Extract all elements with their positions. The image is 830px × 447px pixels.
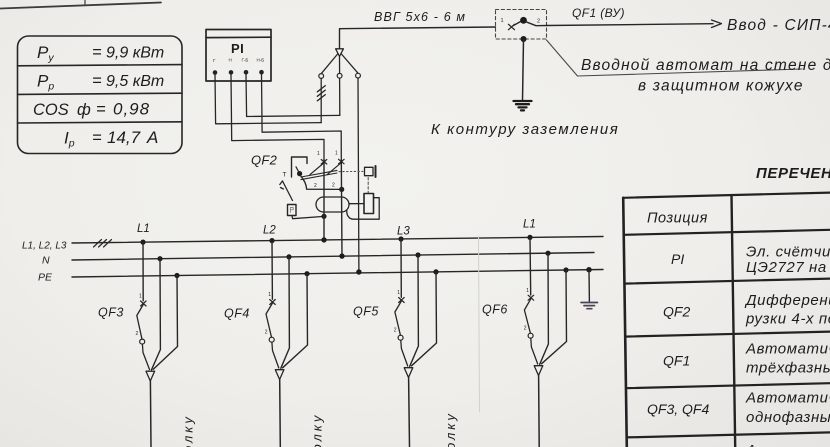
svg-text:=: = [92, 44, 102, 62]
svg-text:COS: COS [33, 101, 69, 119]
meter wire 3 (Г-Б to neutral riser) [246, 75, 340, 117]
svg-text:L1: L1 [137, 223, 150, 235]
earth symbol at PE bus [581, 303, 598, 309]
sheet border fragment (top-left) [0, 0, 161, 9]
dashed link latch to coil [367, 178, 369, 194]
junction on pole 1 conductor [321, 214, 326, 219]
QF5 cable head triangle [404, 368, 413, 378]
svg-text:L1, L2, L3: L1, L2, L3 [22, 241, 67, 252]
svg-text:QF6: QF6 [482, 303, 508, 317]
svg-text:К контуру заземления: К контуру заземления [431, 121, 619, 138]
termination fan wires [321, 54, 358, 74]
svg-text:1: 1 [501, 18, 504, 24]
QF3 outlet contact circle [140, 339, 145, 344]
QF5 outgoing cable [408, 378, 411, 447]
row QF1 description [745, 341, 830, 377]
QF3 outgoing cable [149, 381, 152, 447]
RCD pole 2 blade [327, 162, 342, 175]
svg-text:T: T [283, 172, 287, 179]
svg-text:олку: олку [181, 414, 196, 447]
leader line to annotation [547, 40, 803, 76]
svg-text:Н-Б: Н-Б [257, 57, 265, 62]
svg-text:в защитном кожухе: в защитном кожухе [638, 78, 804, 95]
wire: QF1 output to arrow [547, 24, 713, 26]
svg-text:QF1 (ВУ): QF1 (ВУ) [572, 6, 625, 20]
wire resistor to pole 1 [292, 216, 324, 219]
QF1 earth tap junction [521, 36, 527, 42]
svg-text:1: 1 [317, 151, 320, 157]
dotted link to release [339, 170, 363, 172]
wire: incoming main from riser to QF1 [340, 27, 496, 49]
phase conductor with 3-core marks [317, 78, 325, 122]
bus L1 L2 L3 [72, 237, 603, 244]
wire: QF1 to earth [523, 39, 524, 101]
coil return bracket [347, 198, 379, 220]
junction QF2 pole2 to N bus [339, 253, 344, 258]
PE conductor down to PE bus [357, 78, 360, 272]
svg-text:Г: Г [213, 58, 216, 63]
wire toroid to coil [349, 203, 364, 205]
table grid [623, 193, 830, 447]
svg-text:Эл. счётчик: Эл. счётчик [746, 244, 830, 261]
QF6 cable head triangle [534, 366, 543, 376]
QF3 PE drop [153, 273, 179, 369]
svg-text:Автоматичес: Автоматичес [745, 390, 830, 407]
junction QF2 pole1 to L bus [321, 237, 326, 242]
QF3 cable head triangle [146, 371, 155, 381]
svg-text:QF3: QF3 [98, 306, 124, 320]
QF6 outgoing cable [538, 376, 541, 447]
QF4 phase to cable [272, 342, 279, 368]
svg-text:0,98: 0,98 [113, 100, 150, 119]
breaker QF1 dashed enclosure [496, 10, 547, 40]
meter terminal dots [213, 70, 264, 75]
load data box [18, 36, 183, 154]
RCD pole 2 contact cross [339, 159, 345, 164]
breaker QF6 blade [524, 299, 531, 334]
RCD linkage bar (double) [301, 170, 337, 179]
RCD pole 1 contact cross [321, 160, 327, 165]
svg-text:L3: L3 [397, 226, 410, 238]
QF3 neutral drop [152, 256, 163, 370]
cable termination triangle [336, 49, 344, 57]
QF3 phase to cable [142, 344, 149, 369]
svg-text:14,7: 14,7 [107, 128, 141, 147]
svg-text:рузки 4-х по: рузки 4-х по [745, 311, 830, 328]
breaker QF3 blade [137, 305, 144, 340]
svg-text:PI: PI [671, 251, 684, 267]
breaker QF5 contact cross [399, 298, 405, 303]
RCD QF2 test contact pivot [296, 167, 302, 176]
row QF3, QF4 description [745, 390, 830, 427]
svg-text:=: = [96, 101, 106, 119]
svg-text:Pр: Pр [37, 72, 54, 93]
junction PE riser to PE bus [356, 269, 361, 274]
row QF2 description [744, 292, 830, 328]
breaker QF6 contact cross [528, 295, 534, 300]
svg-text:=: = [92, 129, 102, 147]
svg-text:1: 1 [397, 290, 400, 296]
RCD pole pin labels [314, 151, 338, 189]
3-phase slashes [94, 240, 112, 248]
svg-text:А: А [146, 128, 158, 147]
QF5 outlet contact circle [398, 335, 403, 340]
svg-text:QF2: QF2 [663, 304, 690, 320]
svg-text:QF1: QF1 [663, 353, 690, 369]
svg-text:9,5 кВт: 9,5 кВт [106, 73, 164, 90]
QF6 PE drop [542, 267, 569, 363]
RCD pole 1 conductor [323, 160, 325, 240]
svg-text:Автоматичес: Автоматичес [745, 442, 830, 447]
svg-text:ЦЭ2727 на дин: ЦЭ2727 на дин [746, 259, 830, 276]
QF5 phase to cable [401, 340, 408, 366]
QF5 neutral drop [410, 252, 421, 366]
row PI description [746, 244, 830, 277]
RCD pole 2 conductor [340, 160, 343, 257]
QF1 pin numbers [501, 18, 541, 25]
svg-text:2: 2 [537, 19, 540, 25]
svg-text:2: 2 [136, 331, 139, 337]
svg-text:ВВГ 5х6 - 6 м: ВВГ 5х6 - 6 м [374, 10, 466, 24]
svg-text:трёхфазный: трёхфазный [746, 360, 830, 377]
svg-text:L1: L1 [523, 219, 536, 231]
svg-text:однофазный: однофазный [746, 409, 830, 426]
QF5 phase drop [398, 236, 403, 297]
earth tap from PE bus [586, 267, 591, 302]
bus N [72, 253, 594, 261]
svg-text:=: = [92, 72, 102, 90]
RCD QF2 test button blade [280, 181, 293, 201]
load data text Pр = 9,5 кВт [37, 72, 164, 93]
svg-text:QF2: QF2 [251, 153, 278, 168]
QF5 PE drop [412, 269, 439, 366]
svg-text:N: N [42, 255, 50, 267]
svg-text:2: 2 [524, 326, 527, 332]
QF4 outgoing cable [279, 380, 282, 447]
QF4 phase drop [269, 238, 274, 299]
meter wire 1 (Г to phase) [215, 75, 321, 124]
load data text COS ф = 0,98 [33, 100, 150, 120]
svg-text:олку: олку [310, 413, 325, 447]
meter terminal labels [213, 57, 264, 63]
svg-text:Г-Б: Г-Б [242, 58, 249, 63]
svg-text:1: 1 [335, 151, 338, 157]
QF4 neutral drop [281, 254, 292, 368]
svg-text:Н: Н [229, 58, 232, 63]
svg-text:Вводной автомат на стене до: Вводной автомат на стене до [581, 57, 830, 74]
earth electrode symbol [514, 101, 532, 110]
release coil [364, 194, 374, 214]
svg-text:2: 2 [394, 328, 397, 334]
meter wire 4 (Н-Б to QF2 pole 2) [262, 75, 342, 160]
svg-text:2: 2 [314, 183, 317, 189]
svg-text:ПЕРЕЧЕНЬ ЭЛ: ПЕРЕЧЕНЬ ЭЛ [756, 165, 830, 182]
breaker QF3 contact cross [141, 301, 147, 306]
svg-text:PI: PI [231, 41, 244, 56]
junction on pole 2 conductor [339, 187, 344, 192]
svg-text:1: 1 [139, 294, 142, 300]
svg-text:L2: L2 [263, 225, 276, 237]
svg-text:2: 2 [265, 330, 268, 336]
RCD pole 1 blade [310, 162, 325, 175]
svg-text:QF4: QF4 [224, 307, 250, 321]
svg-text:Автоматичес: Автоматичес [745, 341, 830, 358]
release latch box [365, 166, 376, 177]
crease line [479, 236, 480, 412]
breaker QF1 contact cross [509, 24, 515, 29]
QF4 cable head triangle [275, 370, 284, 380]
load data text Iр = 14,7 А [64, 128, 158, 150]
QF6 phase drop [527, 235, 532, 295]
breaker QF4 blade [266, 303, 273, 337]
QF3 phase drop [140, 240, 145, 301]
svg-text:2: 2 [332, 183, 335, 189]
meter PI box [206, 30, 271, 82]
svg-text:1: 1 [268, 292, 271, 298]
svg-text:олку: олку [443, 411, 458, 447]
QF6 outlet contact circle [528, 333, 533, 338]
QF4 outlet contact circle [269, 337, 274, 342]
RCD QF2 test wire to pole 2 [301, 176, 342, 190]
svg-text:Позиция: Позиция [647, 211, 708, 227]
load data text Pу = 9,9 кВт [37, 43, 164, 64]
differential transformer toroid [316, 197, 349, 212]
QF6 neutral drop [540, 251, 551, 365]
arrow head to Ввод [712, 20, 722, 28]
svg-text:ф: ф [77, 101, 91, 119]
QF4 PE drop [283, 271, 310, 368]
svg-text:Pу: Pу [37, 43, 54, 64]
svg-text:1: 1 [526, 288, 529, 294]
meter wire 2 (Н to QF2 pole 1) [231, 75, 324, 160]
svg-text:Iр: Iр [64, 129, 75, 150]
svg-text:Дифференци: Дифференци [744, 292, 830, 309]
QF6 phase to cable [531, 338, 538, 364]
breaker QF5 blade [395, 301, 402, 335]
svg-text:9,9 кВт: 9,9 кВт [106, 45, 164, 62]
svg-text:QF5: QF5 [353, 305, 379, 319]
test resistor R [288, 205, 297, 216]
svg-text:PE: PE [38, 272, 53, 284]
RCD QF2 handle bracket [292, 157, 308, 177]
bus PE [72, 270, 603, 278]
detachable contact circles [319, 73, 361, 78]
svg-text:QF3, QF4: QF3, QF4 [647, 401, 709, 417]
neutral conductor upper [339, 78, 341, 115]
breaker QF4 contact cross [270, 300, 276, 305]
breaker QF1 blade and pivot [514, 17, 548, 26]
svg-text:Ввод - СИП-4: Ввод - СИП-4 [727, 17, 830, 34]
